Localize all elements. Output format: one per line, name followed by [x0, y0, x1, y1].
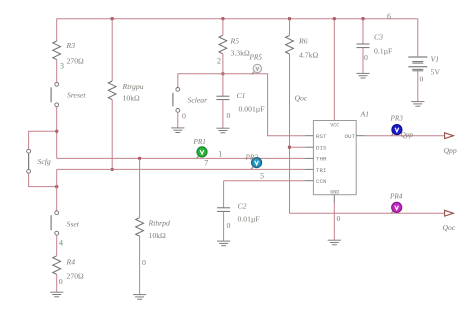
resistor R3	[53, 41, 61, 60]
wire TRI net line 7	[57, 168, 305, 170]
wire Rthrpd top lead	[139, 158, 141, 217]
resistor R4	[53, 256, 61, 275]
wire R4 to ground	[56, 274, 58, 292]
wire R5 top lead	[222, 19, 224, 36]
resistor R5	[219, 35, 227, 54]
svg-text:0: 0	[420, 75, 424, 84]
wire Sclear to ground	[177, 112, 179, 128]
svg-text:0: 0	[227, 111, 231, 120]
svg-text:R3: R3	[66, 41, 76, 50]
timer IC A1	[305, 110, 369, 204]
probe PR1	[196, 147, 207, 159]
ground below C1	[216, 128, 229, 133]
svg-text:R4: R4	[66, 258, 76, 267]
wire Rtrgpu top lead	[111, 19, 113, 81]
svg-text:0.01µF: 0.01µF	[238, 215, 260, 224]
svg-text:Qoc: Qoc	[295, 94, 308, 103]
wire OUT net to arrow	[365, 135, 445, 137]
node junction Sreset-Scfg-THR	[55, 130, 58, 133]
wire C3 to ground	[362, 48, 364, 74]
svg-text:5V: 5V	[431, 68, 441, 77]
node junction rail-VCC	[333, 17, 336, 20]
svg-text:THR: THR	[316, 156, 327, 163]
capacitor C2	[217, 208, 230, 212]
wire VCC to rail	[333, 19, 335, 121]
wire C3 top lead	[362, 19, 364, 44]
wire R3 to Sreset	[56, 60, 58, 83]
wire RST node to RST pin	[223, 74, 305, 136]
ground below C3	[356, 73, 369, 78]
probe PR4	[391, 202, 402, 213]
switch Sset	[51, 211, 59, 235]
svg-text:Sreset: Sreset	[67, 91, 86, 100]
svg-text:5: 5	[260, 171, 264, 180]
svg-text:OUT: OUT	[345, 133, 356, 140]
svg-text:R6: R6	[298, 37, 308, 46]
ground below C2	[217, 241, 230, 246]
output flag Qpp	[445, 133, 454, 139]
svg-text:4.7kΩ: 4.7kΩ	[299, 51, 318, 60]
svg-text:PR1: PR1	[193, 138, 206, 146]
svg-text:C2: C2	[238, 202, 247, 211]
wire RST node to Sclear	[178, 74, 223, 88]
svg-text:Qpp: Qpp	[444, 146, 457, 155]
wire node to Sset	[56, 187, 58, 211]
svg-text:3.3kΩ: 3.3kΩ	[231, 49, 250, 58]
svg-text:Qoc: Qoc	[443, 223, 456, 232]
svg-text:A1: A1	[360, 110, 370, 119]
svg-text:6: 6	[387, 12, 391, 21]
wire top power rail	[57, 18, 418, 20]
svg-text:RST: RST	[316, 133, 327, 140]
svg-text:PR3: PR3	[390, 115, 404, 123]
svg-text:Rtrgpu: Rtrgpu	[122, 82, 144, 91]
wire R6 top lead	[289, 19, 291, 36]
svg-text:C1: C1	[237, 91, 246, 100]
output flag Qoc	[445, 210, 454, 216]
wire Qoc vertical R6 to output	[290, 54, 445, 213]
svg-text:0: 0	[227, 221, 231, 230]
ground below R4	[50, 292, 63, 297]
svg-text:0: 0	[337, 214, 341, 223]
node junction rail-R5	[221, 17, 224, 20]
wire THR net line 1	[57, 157, 305, 159]
svg-text:0.001µF: 0.001µF	[239, 105, 265, 114]
capacitor C1	[216, 96, 229, 99]
wire V1 to ground	[417, 70, 419, 102]
wire GND stub down	[333, 203, 335, 240]
ground below Sclear	[171, 128, 184, 133]
chip pin stubs	[305, 136, 365, 203]
wire R5 to RST node	[222, 54, 224, 74]
svg-text:PR4: PR4	[389, 193, 403, 201]
svg-text:GND: GND	[330, 190, 339, 196]
svg-text:Rthrpd: Rthrpd	[148, 219, 171, 228]
resistor R6	[286, 35, 294, 54]
node junction rail-R6	[288, 17, 291, 20]
wire Scfg bottom connection	[29, 173, 57, 186]
wire Sset to R4	[56, 235, 58, 256]
svg-text:PR2: PR2	[245, 154, 259, 162]
svg-text:Scfg: Scfg	[38, 157, 51, 166]
svg-text:PR5: PR5	[249, 54, 263, 62]
svg-text:270Ω: 270Ω	[67, 57, 85, 66]
switch Sclear	[173, 88, 180, 113]
svg-text:2: 2	[217, 57, 221, 66]
node junction rail-Rtrgpu	[111, 17, 114, 20]
resistor Rthrpd	[136, 218, 144, 237]
wire DIS pin link	[290, 146, 305, 148]
switch Scfg (closed)	[27, 149, 31, 173]
svg-text:Sset: Sset	[67, 220, 80, 229]
wire R3 top lead	[56, 19, 58, 41]
probe PR5	[252, 64, 262, 74]
ground below V1	[411, 102, 424, 107]
node junction Scfg-TRI-Sset	[55, 185, 58, 188]
probe PR3	[391, 125, 402, 136]
wire C2 to ground	[223, 211, 225, 241]
battery V1	[408, 57, 427, 71]
wire Rtrgpu to TRI line	[111, 100, 113, 170]
svg-text:0: 0	[182, 112, 186, 121]
wire V1 drop from rail	[417, 19, 419, 57]
svg-text:4: 4	[59, 239, 63, 248]
svg-text:TRI: TRI	[316, 167, 326, 174]
wire C2 elbow from CCN line	[223, 181, 225, 208]
svg-text:0: 0	[364, 53, 368, 62]
wire Scfg top connection	[29, 131, 57, 149]
node junction Qoc-DIS	[288, 146, 291, 149]
svg-text:DIS: DIS	[316, 145, 327, 152]
svg-text:VCC: VCC	[330, 123, 339, 129]
svg-text:Qpp: Qpp	[401, 131, 414, 139]
wire C1 top lead	[222, 74, 224, 96]
node junction rail-C3	[361, 17, 364, 20]
svg-text:R5: R5	[230, 37, 240, 46]
wire Sreset to node	[56, 107, 58, 159]
node junction Rtrgpu-TRI	[111, 168, 114, 171]
capacitor C3	[357, 44, 370, 48]
wire TRI branch up	[56, 169, 58, 186]
ground below Rthrpd	[133, 295, 146, 300]
ground below chip	[328, 240, 341, 245]
svg-text:10kΩ: 10kΩ	[123, 94, 141, 103]
node junction R5-C1-Sclear-RST	[221, 72, 224, 75]
svg-text:3: 3	[60, 62, 64, 71]
svg-text:0.1µF: 0.1µF	[374, 47, 392, 56]
svg-text:CCN: CCN	[316, 178, 327, 185]
svg-text:7: 7	[204, 158, 208, 167]
svg-text:V1: V1	[431, 55, 440, 64]
svg-text:1: 1	[218, 149, 222, 158]
switch Sreset	[51, 82, 59, 106]
probe PR2	[251, 158, 262, 170]
resistor Rtrgpu	[108, 81, 116, 100]
wire CCN net line 5	[224, 180, 305, 182]
svg-text:C3: C3	[374, 33, 383, 42]
svg-text:0: 0	[142, 258, 146, 267]
svg-text:Sclear: Sclear	[188, 96, 209, 105]
wire C1 to ground	[222, 100, 224, 129]
svg-text:10kΩ: 10kΩ	[149, 231, 167, 240]
svg-text:0: 0	[59, 277, 63, 286]
wire Rthrpd to ground	[139, 236, 141, 294]
node junction Rthrpd-THR	[138, 157, 141, 160]
svg-text:270Ω: 270Ω	[67, 272, 85, 281]
